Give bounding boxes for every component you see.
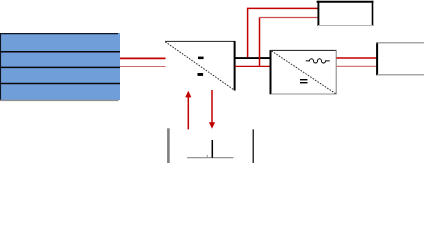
arrow A2 battery discharge (down) [209,90,215,129]
load box LOAD1 (cut off at right edge) [376,42,424,75]
wire W7 horizontal light red into controller [260,17,318,19]
battery B1 bottom wire (grey horizontal) [187,157,234,159]
battery B1 right edge (black line) [252,129,254,163]
solar panel PV1 [0,33,120,100]
battery B1 short plate (small grey tick) [206,155,208,158]
controller box U3 [317,1,374,26]
wire W3 dc bus upper (black) converter to inverter [235,57,271,59]
inverter U2 (box with diagonal) [270,50,337,94]
wire W6 riser from red bus to controller [259,18,261,67]
wire W4 dc bus lower (red) converter to inverter [235,65,271,67]
battery B1 left plate (grey bar, cut off at bottom) [167,128,170,163]
dc symbol (equals) inside inverter [300,79,308,83]
wire W9 inverter to load (lower, light red) [337,65,378,67]
arrow A1 battery charge (up) [185,91,191,130]
wire W2 panel to converter (lower, light red) [120,66,166,68]
wire W8 inverter to load (upper, red) [337,57,378,59]
dc-dc converter U1 (triangle) [165,41,235,91]
ac symbol (sine) inside inverter [306,59,330,63]
battery B1 long plate (vertical black) [211,140,213,158]
wire W5 tap from black bus up and over to controller [248,8,318,57]
wire W1 panel to converter (upper, red) [120,57,166,59]
